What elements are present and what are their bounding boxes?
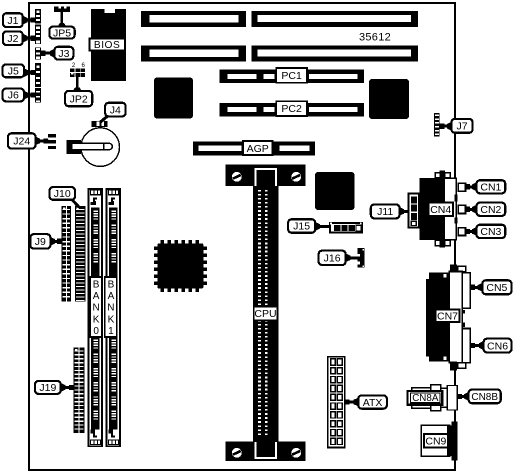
svg-text:CN2: CN2 bbox=[480, 204, 501, 216]
svg-text:JP2: JP2 bbox=[70, 93, 88, 105]
svg-text:PC1: PC1 bbox=[281, 70, 302, 82]
svg-text:J2: J2 bbox=[7, 33, 18, 45]
svg-text:CN5: CN5 bbox=[486, 282, 507, 294]
svg-text:A: A bbox=[108, 291, 115, 302]
svg-text:B: B bbox=[93, 280, 100, 291]
svg-text:CN8A: CN8A bbox=[412, 393, 439, 404]
svg-text:J15: J15 bbox=[293, 221, 310, 233]
svg-text:J5: J5 bbox=[8, 66, 19, 78]
svg-text:1: 1 bbox=[108, 326, 114, 337]
svg-text:K: K bbox=[108, 314, 115, 325]
svg-text:J1: J1 bbox=[7, 15, 18, 27]
svg-text:J24: J24 bbox=[13, 136, 30, 148]
svg-text:K: K bbox=[93, 314, 100, 325]
svg-text:JP5: JP5 bbox=[53, 27, 71, 39]
svg-text:CN7: CN7 bbox=[437, 311, 458, 323]
svg-text:A: A bbox=[93, 291, 100, 302]
svg-text:N: N bbox=[107, 303, 114, 314]
svg-text:PC2: PC2 bbox=[281, 103, 302, 115]
svg-text:J7: J7 bbox=[456, 121, 467, 133]
svg-text:CN9: CN9 bbox=[425, 436, 446, 448]
svg-text:N: N bbox=[92, 303, 99, 314]
svg-text:CN8B: CN8B bbox=[471, 392, 498, 403]
svg-text:J6: J6 bbox=[8, 90, 19, 102]
svg-text:J16: J16 bbox=[324, 253, 341, 265]
svg-text:J3: J3 bbox=[58, 48, 69, 60]
svg-text:BIOS: BIOS bbox=[94, 40, 120, 51]
svg-text:CN4: CN4 bbox=[430, 204, 451, 216]
svg-text:J19: J19 bbox=[39, 382, 56, 394]
svg-text:J10: J10 bbox=[54, 188, 71, 200]
svg-text:35612: 35612 bbox=[359, 32, 391, 44]
svg-text:AGP: AGP bbox=[247, 143, 269, 155]
svg-text:J11: J11 bbox=[377, 206, 393, 218]
svg-text:ATX: ATX bbox=[363, 397, 383, 409]
svg-text:0: 0 bbox=[93, 326, 99, 337]
svg-text:CN1: CN1 bbox=[480, 182, 501, 194]
svg-text:CN3: CN3 bbox=[480, 226, 501, 238]
svg-text:B: B bbox=[108, 280, 115, 291]
svg-text:J4: J4 bbox=[110, 104, 121, 116]
svg-text:CPU: CPU bbox=[254, 308, 276, 320]
svg-text:CN6: CN6 bbox=[487, 340, 508, 352]
svg-text:J9: J9 bbox=[35, 236, 46, 248]
